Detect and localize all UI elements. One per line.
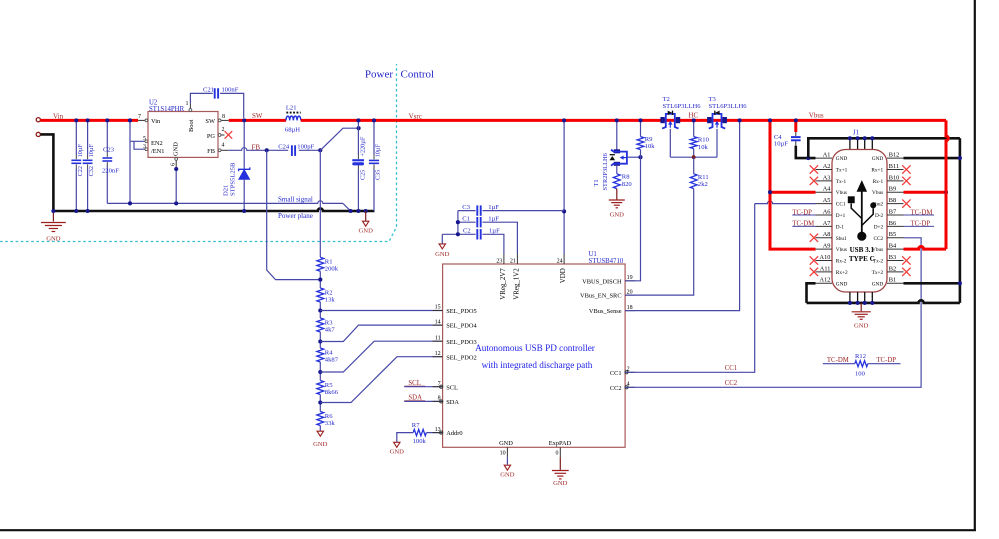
pin 24 VDD <box>563 254 565 264</box>
svg-text:Vsrc: Vsrc <box>409 113 422 121</box>
svg-text:Vbus: Vbus <box>836 247 847 253</box>
pin 8 SW <box>218 119 229 121</box>
wire T1 gate <box>627 156 641 158</box>
svg-text:D+1: D+1 <box>836 213 846 219</box>
svg-text:A4: A4 <box>823 186 832 193</box>
svg-text:GND: GND <box>872 281 884 287</box>
svg-text:A8: A8 <box>823 231 831 238</box>
wire /EN1 stub <box>134 141 148 149</box>
svg-text:20: 20 <box>627 289 633 295</box>
svg-text:1µF: 1µF <box>489 228 500 235</box>
svg-text:C23: C23 <box>103 147 115 154</box>
svg-text:B8: B8 <box>889 197 896 204</box>
wire SDA <box>404 400 442 402</box>
svg-text:12: 12 <box>435 351 441 357</box>
svg-text:100k: 100k <box>413 438 427 445</box>
svg-text:R11: R11 <box>698 174 709 181</box>
wire R9 to VBUS_DISCH <box>625 150 640 281</box>
resistor R11 2k2 <box>693 157 695 174</box>
capacitor C21 100nF <box>214 88 216 98</box>
svg-text:100nF: 100nF <box>222 87 239 94</box>
ground R8 <box>609 199 625 201</box>
svg-text:B6: B6 <box>889 220 896 227</box>
pin 8 SDA <box>433 400 443 402</box>
wire FB to output diagonal <box>320 128 358 150</box>
svg-text:VBUS_DISCH: VBUS_DISCH <box>582 278 622 285</box>
svg-text:10µF: 10µF <box>375 144 382 158</box>
capacitor C35 10uF <box>373 120 375 154</box>
svg-text:SEL_PDO4: SEL_PDO4 <box>446 323 477 330</box>
svg-text:FB: FB <box>207 148 215 155</box>
svg-text:CC1: CC1 <box>836 202 846 208</box>
wire A12 gnd bottom path <box>807 283 816 303</box>
wire FB branch to divider <box>267 150 321 279</box>
svg-text:TC-DP: TC-DP <box>876 357 896 364</box>
resistor R9 10k <box>640 120 642 136</box>
svg-text:19: 19 <box>627 275 633 281</box>
terminal P1 Vin+ <box>36 118 40 122</box>
cyan dashed power/control region border <box>0 64 397 242</box>
svg-text:STUSB4710: STUSB4710 <box>589 258 624 265</box>
capacitor C2 1uF <box>442 233 475 235</box>
svg-text:EN2: EN2 <box>151 140 163 147</box>
wire R11 to VBus_EN_SRC <box>625 189 694 296</box>
svg-text:GND: GND <box>500 472 515 479</box>
wire Boot loop <box>190 93 212 103</box>
wire D21 anode to power plane <box>243 179 245 211</box>
svg-text:T1: T1 <box>593 179 600 186</box>
junction SW-D21 <box>242 118 246 122</box>
svg-text:68µH: 68µH <box>285 127 300 134</box>
resistor R1 200k <box>317 257 324 271</box>
wire caps common left <box>457 211 459 235</box>
ground R7 <box>394 442 400 447</box>
wire VDD vertical <box>563 120 565 254</box>
pin 21 VReg_1V2 <box>516 254 518 264</box>
svg-text:4: 4 <box>222 142 225 148</box>
resistor R2 13k <box>317 288 324 302</box>
wire Vsrc red rail <box>301 119 946 122</box>
svg-text:B10: B10 <box>889 174 900 181</box>
wire small signal rail <box>107 201 343 204</box>
wire J1 shield top <box>808 138 960 158</box>
svg-text:R5: R5 <box>325 382 333 389</box>
svg-text:Vbus: Vbus <box>872 190 883 196</box>
junction FB branch <box>265 148 269 152</box>
junction FB-R1 <box>318 148 322 152</box>
pin 7 Vin <box>138 119 148 121</box>
svg-text:STPS5L25B: STPS5L25B <box>230 162 237 196</box>
wire small signal diagonal join <box>343 203 351 211</box>
ground J1 shield <box>860 303 862 311</box>
wire SEL_PDO2 net <box>320 357 442 403</box>
svg-text:Rx+1: Rx+1 <box>871 167 883 173</box>
svg-text:100pF: 100pF <box>297 143 314 150</box>
svg-text:5: 5 <box>143 136 146 142</box>
ground U1 pin10 <box>504 465 510 470</box>
svg-text:Sbu1: Sbu1 <box>836 236 847 242</box>
svg-text:L21: L21 <box>286 105 297 112</box>
svg-text:PG: PG <box>207 133 216 140</box>
svg-text:2: 2 <box>627 367 630 373</box>
pin 2 CC1 <box>625 371 635 373</box>
svg-text:Vbus: Vbus <box>836 190 847 196</box>
capacitor C25 +220uF <box>357 120 359 154</box>
svg-text:SW: SW <box>252 112 263 120</box>
svg-text:B9: B9 <box>889 186 896 193</box>
junction ladder taps <box>318 278 322 282</box>
wire J1 right vertical gnd <box>959 138 962 303</box>
svg-text:A9: A9 <box>823 243 831 250</box>
svg-text:STL6P3LLH6: STL6P3LLH6 <box>709 103 748 110</box>
svg-text:13: 13 <box>435 427 441 433</box>
pin 1 Boot <box>189 103 191 111</box>
junction shield stubs bottom <box>849 292 851 303</box>
resistor R3 4k7 <box>317 318 324 332</box>
svg-text:Autonomous USB PD controller: Autonomous USB PD controller <box>475 343 595 353</box>
svg-text:Boot: Boot <box>188 119 195 132</box>
svg-text:T2: T2 <box>663 96 670 103</box>
wire FB net left segment <box>229 148 288 151</box>
ground ExpPAD <box>552 470 569 472</box>
ground power plane right <box>365 211 367 221</box>
svg-text:GND: GND <box>610 212 625 219</box>
svg-text:C1: C1 <box>462 216 470 223</box>
svg-text:8: 8 <box>222 114 225 120</box>
pin 11 SEL_PDO3 <box>433 340 443 342</box>
svg-text:CC2: CC2 <box>725 380 738 387</box>
diode D21 STPS5L25B schottky <box>239 167 250 171</box>
svg-text:B2: B2 <box>889 265 896 272</box>
svg-text:B12: B12 <box>889 152 900 159</box>
wire SEL_PDO4 net <box>320 325 442 341</box>
svg-text:SW: SW <box>205 118 216 125</box>
svg-text:GND: GND <box>854 322 869 329</box>
svg-text:8k66: 8k66 <box>325 389 339 396</box>
wire FB to R1 vertical <box>319 150 321 257</box>
svg-text:R2: R2 <box>325 289 333 296</box>
wire T2 gate <box>669 129 671 157</box>
svg-text:SEL_PDO2: SEL_PDO2 <box>446 354 477 361</box>
capacitor C3 1uF <box>458 210 476 212</box>
pin 0 ExpPAD <box>559 447 561 457</box>
svg-text:with integrated discharge path: with integrated discharge path <box>482 360 593 370</box>
svg-text:ST1S14PHR: ST1S14PHR <box>149 106 185 113</box>
svg-text:R3: R3 <box>325 319 333 326</box>
sheet border <box>974 0 976 531</box>
svg-text:B4: B4 <box>889 243 897 250</box>
svg-text:Vin: Vin <box>151 118 161 125</box>
pin 2 PG <box>218 134 225 136</box>
svg-text:7: 7 <box>138 114 141 120</box>
svg-text:GND: GND <box>390 449 405 456</box>
svg-text:R12: R12 <box>855 353 866 360</box>
op-amp U1 STUSB4710 box <box>443 264 625 447</box>
svg-text:C3: C3 <box>462 204 470 211</box>
resistor R4 4k87 <box>317 348 324 362</box>
wire R7 to gnd <box>397 433 413 443</box>
wire Vbus branch A4/A9 <box>770 120 816 249</box>
svg-text:B7: B7 <box>889 208 896 215</box>
svg-text:Addr0: Addr0 <box>446 430 462 437</box>
wire B1 gnd <box>904 282 960 285</box>
wire SEL_PDO3 net <box>320 341 442 372</box>
svg-text:TYPE C: TYPE C <box>849 255 875 263</box>
wire B9 vbus <box>904 191 947 194</box>
svg-text:C24: C24 <box>278 143 290 150</box>
svg-text:C22: C22 <box>77 166 84 176</box>
svg-text:A6: A6 <box>823 208 831 215</box>
svg-text:Power: Power <box>365 69 393 81</box>
wire CC1 net <box>625 204 755 373</box>
svg-text:13k: 13k <box>325 296 336 303</box>
svg-text:4: 4 <box>627 382 630 388</box>
svg-text:T3: T3 <box>709 96 717 103</box>
terminal P2 GND <box>36 132 40 136</box>
svg-text:200k: 200k <box>325 266 339 273</box>
svg-text:U1: U1 <box>589 251 597 258</box>
svg-text:A12: A12 <box>820 277 831 284</box>
svg-text:CC1: CC1 <box>610 370 622 377</box>
svg-text:GND: GND <box>836 281 848 287</box>
resistor R10 10k <box>693 120 695 136</box>
svg-text:23: 23 <box>496 259 502 265</box>
svg-text:USB 3.1: USB 3.1 <box>850 246 875 254</box>
svg-text:GND: GND <box>499 440 513 447</box>
wire SCL <box>404 386 442 388</box>
svg-text:10: 10 <box>500 451 506 457</box>
svg-text:1µF: 1µF <box>488 204 499 211</box>
svg-text:A10: A10 <box>820 254 831 261</box>
ground VReg caps <box>439 244 445 249</box>
svg-text:STL6P3LLH6: STL6P3LLH6 <box>663 103 702 110</box>
svg-text:B5: B5 <box>889 231 896 238</box>
svg-text:/EN1: /EN1 <box>151 148 165 155</box>
svg-text:GND: GND <box>836 156 848 162</box>
svg-text:Vbus: Vbus <box>872 247 883 253</box>
svg-text:Vbus: Vbus <box>809 112 824 120</box>
wire Vbus right drop <box>946 120 948 249</box>
svg-text:VReg_1V2: VReg_1V2 <box>513 268 520 300</box>
svg-text:C35: C35 <box>375 170 382 180</box>
svg-text:220nF: 220nF <box>102 168 119 175</box>
svg-text:14: 14 <box>435 319 441 325</box>
svg-text:D-2: D-2 <box>875 213 884 219</box>
svg-text:21: 21 <box>510 259 516 265</box>
pin 15 SEL_PDO5 <box>433 310 443 312</box>
wire gnd pin 10 <box>506 457 508 464</box>
svg-text:ExpPAD: ExpPAD <box>549 440 572 447</box>
wire power plane rail <box>52 208 374 211</box>
wire gate bus <box>670 156 717 158</box>
svg-text:Rx+2: Rx+2 <box>836 270 848 276</box>
svg-text:GND: GND <box>359 228 374 235</box>
svg-text:6: 6 <box>171 163 177 166</box>
wire T1 drain to Vsrc <box>616 120 618 150</box>
pin 4 CC2 <box>625 386 635 388</box>
svg-text:VBus_Sense: VBus_Sense <box>589 308 622 315</box>
resistor R5 8k66 <box>317 381 324 395</box>
svg-text:100: 100 <box>855 370 866 377</box>
svg-text:C21: C21 <box>203 87 214 94</box>
svg-text:SDA: SDA <box>446 399 459 406</box>
svg-text:8: 8 <box>438 396 441 402</box>
wire SEL_PDO5 net <box>320 310 442 312</box>
svg-text:4k87: 4k87 <box>325 356 339 363</box>
svg-text:R7: R7 <box>412 422 420 429</box>
transistor T1 STR2P3LLH6 <box>614 149 620 153</box>
wire Vin red rail to U2 pin7 <box>40 119 138 122</box>
junction power plane left corner <box>51 209 55 213</box>
capacitor C22 <box>75 120 77 155</box>
svg-text:A2: A2 <box>823 163 831 170</box>
svg-text:1: 1 <box>186 101 189 107</box>
svg-text:Tx-1: Tx-1 <box>836 179 847 185</box>
svg-text:10k: 10k <box>698 144 709 151</box>
svg-text:Tx-2: Tx-2 <box>873 259 884 265</box>
junction output sense <box>357 126 361 130</box>
wire T1 source to R8 <box>616 166 618 174</box>
svg-text:A5: A5 <box>823 197 831 204</box>
wire gnd from terminal <box>40 134 53 211</box>
svg-text:33k: 33k <box>325 420 336 427</box>
svg-text:TC-DM: TC-DM <box>827 357 849 364</box>
svg-text:Rx-1: Rx-1 <box>873 179 884 185</box>
svg-text:Rx-2: Rx-2 <box>836 259 847 265</box>
pin 23 VReg_2V7 <box>503 254 505 264</box>
resistor R8 820 <box>613 174 620 189</box>
connector J1 body <box>832 150 887 293</box>
wire D21 cathode to SW <box>243 122 245 170</box>
svg-text:R10: R10 <box>698 137 710 144</box>
svg-text:SEL_PDO5: SEL_PDO5 <box>446 308 477 315</box>
wire C4 to gnd net <box>796 146 816 158</box>
svg-text:10µF: 10µF <box>774 140 788 147</box>
pin 7 SCL <box>433 386 443 388</box>
ground R6 <box>317 431 323 436</box>
svg-text:A11: A11 <box>820 265 831 272</box>
svg-text:1µF: 1µF <box>488 216 499 223</box>
svg-text:SCL: SCL <box>446 384 458 391</box>
capacitor C23 <box>106 120 108 152</box>
J1 pin stubs and names B side <box>887 157 904 159</box>
svg-text:J1: J1 <box>853 129 859 136</box>
svg-text:STR2P3LLH6: STR2P3LLH6 <box>602 153 609 190</box>
pin 4 FB <box>218 149 229 151</box>
svg-text:B11: B11 <box>889 163 899 170</box>
svg-text:R4: R4 <box>325 349 333 356</box>
svg-text:C32: C32 <box>88 166 95 176</box>
pin 19 VBUS_DISCH <box>625 280 635 282</box>
svg-text:D+2: D+2 <box>874 224 884 230</box>
ground main left <box>52 211 54 222</box>
svg-text:VDD: VDD <box>560 268 567 283</box>
wire ExpPAD gnd <box>559 457 561 470</box>
svg-text:Tx+1: Tx+1 <box>836 167 848 173</box>
pin 20 VBus_EN_SRC <box>625 294 635 296</box>
wire T3 gate <box>716 129 718 157</box>
svg-text:R6: R6 <box>325 413 333 420</box>
svg-text:B3: B3 <box>889 254 896 261</box>
pin 14 SEL_PDO4 <box>433 324 443 326</box>
svg-text:CC1: CC1 <box>725 365 737 372</box>
svg-text:D21: D21 <box>222 185 229 196</box>
svg-text:GND: GND <box>46 236 61 243</box>
pin 6 GND <box>175 157 177 169</box>
svg-text:SEL_PDO3: SEL_PDO3 <box>446 339 477 346</box>
wire B12 gnd <box>904 157 960 160</box>
op-amp U2 ST1S14PHR box <box>148 112 218 158</box>
svg-text:HC: HC <box>689 111 699 119</box>
svg-text:GND: GND <box>313 441 328 448</box>
svg-text:C2: C2 <box>463 228 471 235</box>
svg-text:A7: A7 <box>823 220 831 227</box>
svg-text:0: 0 <box>556 451 559 457</box>
svg-text:GND: GND <box>435 251 450 258</box>
svg-text:A3: A3 <box>823 174 831 181</box>
pin 10 GND <box>506 447 508 457</box>
svg-text:Control: Control <box>401 69 435 81</box>
svg-text:10µF: 10µF <box>88 144 95 158</box>
svg-text:3: 3 <box>143 144 146 150</box>
J1 pin stubs and names A side <box>816 157 833 159</box>
resistor R6 33k <box>317 412 324 426</box>
svg-text:820: 820 <box>622 181 633 188</box>
wire SW red <box>229 119 286 122</box>
svg-text:18: 18 <box>627 305 633 311</box>
USB logo <box>848 181 875 240</box>
wire R8 to gnd <box>616 189 618 200</box>
wire A4 vbus <box>770 191 816 194</box>
junction power plane right taps <box>349 209 353 213</box>
svg-text:Power plane: Power plane <box>278 212 313 220</box>
svg-text:11: 11 <box>435 335 441 341</box>
capacitor C32 <box>87 120 89 155</box>
wire FB net right segment <box>299 149 321 151</box>
wire ladder segments <box>319 271 321 288</box>
wire EN2 stub <box>130 140 148 142</box>
svg-text:GND: GND <box>872 156 884 162</box>
wire VBus_Sense to Vbus <box>625 122 740 311</box>
svg-text:CC2: CC2 <box>873 236 883 242</box>
no-connect marks B side <box>902 165 910 173</box>
svg-text:D-1: D-1 <box>836 224 845 230</box>
wire B4 vbus <box>904 246 947 249</box>
svg-text:2k2: 2k2 <box>698 181 708 188</box>
svg-text:7: 7 <box>438 381 441 387</box>
svg-text:Small signal: Small signal <box>278 196 313 204</box>
wire CC2 net <box>625 238 921 387</box>
svg-text:R1: R1 <box>325 259 333 266</box>
svg-text:R9: R9 <box>645 136 653 143</box>
no-connect marks A side <box>810 165 818 173</box>
wire EN vertical <box>129 120 131 203</box>
svg-text:+220µF: +220µF <box>359 136 366 156</box>
pin 18 VBus_Sense <box>625 310 635 312</box>
junction shield stubs top <box>849 138 851 150</box>
svg-text:R8: R8 <box>622 174 630 181</box>
svg-text:4k7: 4k7 <box>325 326 336 333</box>
wire caps gnd <box>441 234 443 244</box>
svg-text:B1: B1 <box>889 277 896 284</box>
svg-text:10µF: 10µF <box>77 144 84 158</box>
capacitor C4 10uF <box>794 120 797 132</box>
svg-text:Tx+2: Tx+2 <box>872 270 884 276</box>
svg-text:VBus_EN_SRC: VBus_EN_SRC <box>580 293 622 300</box>
svg-text:15: 15 <box>435 305 441 311</box>
svg-text:Sbu2: Sbu2 <box>872 202 883 208</box>
capacitor C24 100pF <box>291 145 293 156</box>
